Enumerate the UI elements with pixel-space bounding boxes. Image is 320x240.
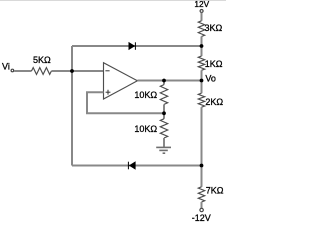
- resistor R1 5K: [32, 68, 52, 75]
- wire bottom rail: [72, 165, 202, 167]
- junction output to R2: [162, 79, 166, 83]
- svg-text:-12V: -12V: [192, 213, 211, 223]
- diode D1 pointing right: [129, 42, 136, 50]
- svg-text:Vo: Vo: [205, 74, 216, 84]
- svg-text:10KΩ: 10KΩ: [134, 90, 157, 100]
- svg-text:7KΩ: 7KΩ: [206, 185, 224, 195]
- wire R4 to top junction: [201, 37, 203, 57]
- wire R2 to midpoint junction: [163, 104, 165, 118]
- wire top rail: [72, 45, 202, 47]
- junction bottom rail node: [200, 164, 204, 168]
- wire Vi terminal to R1: [14, 70, 31, 72]
- wire R7 to -12V terminal: [201, 202, 203, 208]
- op-amp U1: [104, 63, 138, 99]
- resistor R7 7K: [198, 187, 204, 202]
- junction input node: [70, 69, 74, 73]
- diode D2 pointing left: [128, 162, 135, 170]
- wire R1 to op-amp inverting input: [51, 70, 103, 72]
- svg-text:1KΩ: 1KΩ: [205, 59, 223, 69]
- junction top rail node: [200, 44, 204, 48]
- svg-text:5KΩ: 5KΩ: [33, 55, 51, 65]
- terminal +12V: [200, 10, 203, 13]
- terminal -12V: [200, 208, 203, 211]
- wire op-amp noninverting input loop: [87, 92, 164, 113]
- resistor R3 10K lower: [160, 119, 167, 138]
- svg-text:12V: 12V: [194, 0, 209, 9]
- ground: [156, 147, 171, 153]
- resistor R4 3K: [198, 21, 204, 37]
- resistor R5 1K: [198, 56, 204, 70]
- svg-text:10KΩ: 10KΩ: [134, 124, 157, 134]
- input terminal Vi: [11, 69, 14, 72]
- svg-text:Vi: Vi: [2, 62, 10, 72]
- wire R3 to ground: [163, 138, 165, 147]
- wire R5 to Vo node: [201, 70, 203, 93]
- resistor R6 2K: [198, 93, 204, 107]
- wire op-amp output: [137, 80, 201, 82]
- wire 12V terminal to R4: [201, 13, 203, 21]
- resistor R2 10K upper: [160, 85, 167, 105]
- svg-text:2KΩ: 2KΩ: [205, 97, 223, 107]
- junction divider midpoint: [162, 111, 166, 115]
- wire output junction to R2: [163, 81, 165, 85]
- svg-text:3KΩ: 3KΩ: [205, 23, 223, 33]
- wire R6 to bottom junction: [201, 107, 203, 187]
- wire input node vertical branch: [71, 46, 73, 166]
- node Vo: [200, 79, 204, 83]
